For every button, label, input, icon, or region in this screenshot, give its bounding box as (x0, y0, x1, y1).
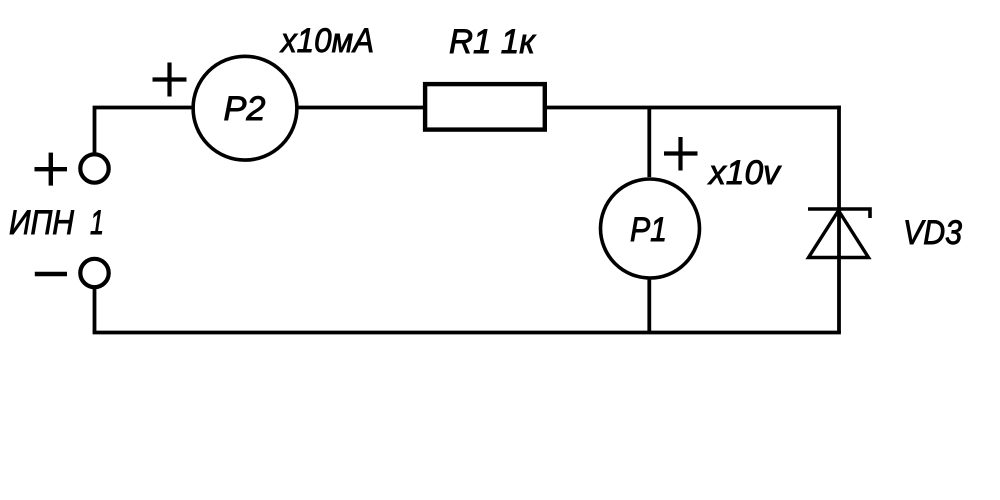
diode VD3 cathode bar (808, 209, 870, 218)
svg-text:VD3: VD3 (903, 214, 962, 252)
svg-text:P2: P2 (224, 90, 266, 128)
svg-text:х10v: х10v (707, 154, 782, 192)
wire from minus terminal down to bottom rail (93, 288, 97, 333)
plus sign at voltmeter (664, 137, 698, 171)
svg-text:R1 1к: R1 1к (449, 23, 537, 61)
svg-text:ИПН: ИПН (9, 204, 74, 242)
right vertical wire through diode (837, 106, 841, 333)
wire from plus terminal up and right to ammeter P2 (95, 108, 194, 154)
terminal − of ИПН 1 (80, 259, 108, 287)
voltmeter P1 (601, 179, 700, 278)
wire resistor to right corner (546, 106, 841, 110)
svg-text:х10мА: х10мА (279, 22, 374, 60)
terminal + of ИПН 1 (80, 154, 108, 182)
wire P1 bottom to bottom rail (647, 280, 651, 333)
diode VD3 triangle (809, 211, 869, 258)
plus sign at ammeter (153, 63, 187, 97)
svg-text:P1: P1 (630, 211, 667, 249)
bottom rail wire (93, 331, 841, 335)
svg-text:1: 1 (90, 204, 104, 242)
ammeter P2 (193, 56, 297, 160)
minus sign at source terminal (35, 272, 67, 276)
wire branch down to voltmeter P1 (647, 108, 651, 178)
plus sign at source terminal (35, 153, 68, 186)
resistor R1 (425, 84, 545, 130)
wire P2 to resistor R1 (298, 106, 424, 110)
